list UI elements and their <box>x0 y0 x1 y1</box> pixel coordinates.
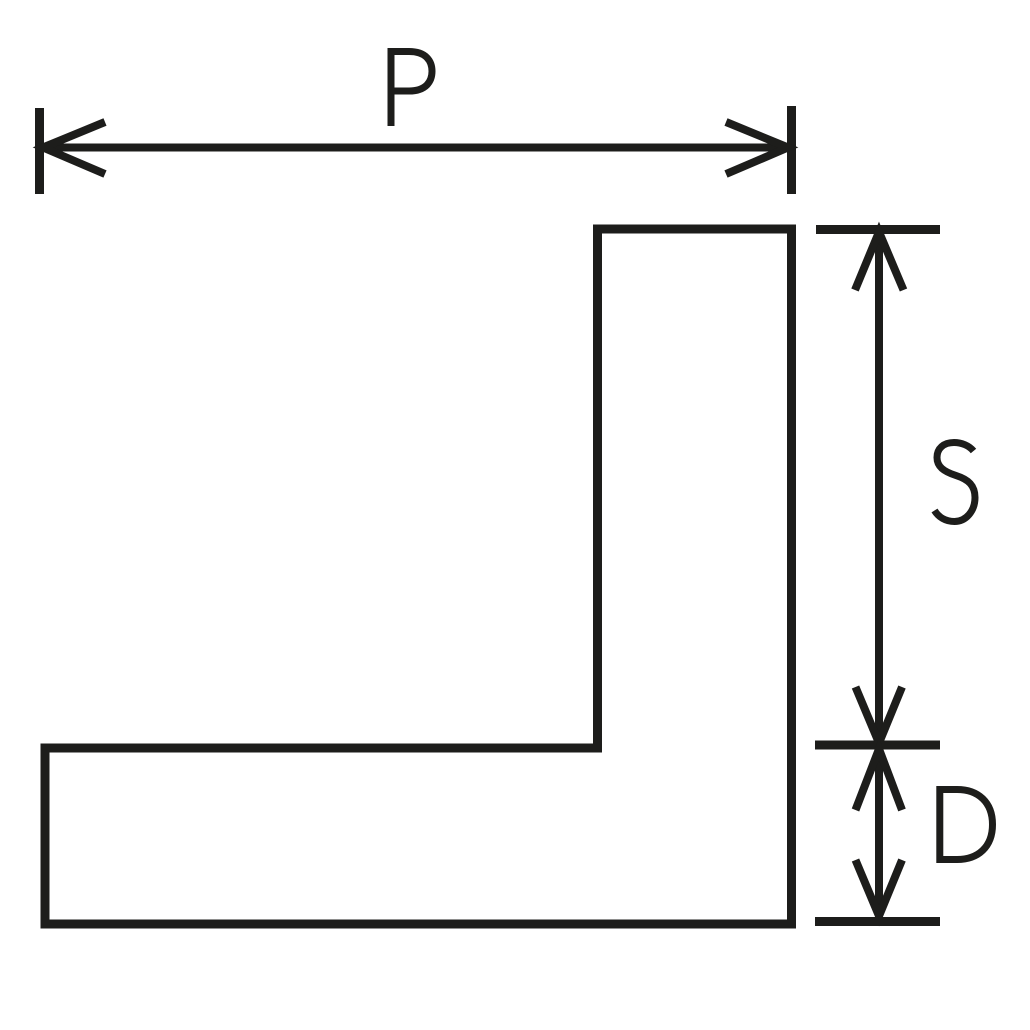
dimension P: left arrowhead <box>43 122 105 174</box>
L-profile outline <box>45 229 792 924</box>
dimension P: right extension tick <box>787 106 796 194</box>
dimension D: bottom extension tick <box>815 917 940 926</box>
dimension S: top arrowhead <box>855 232 904 290</box>
dimension S: top extension tick <box>816 225 940 234</box>
dimension D: middle extension tick <box>815 741 940 750</box>
dimension S: dimension line <box>875 231 883 920</box>
dimension D: bottom arrowhead <box>856 860 903 916</box>
dimension P: dimension line <box>41 144 790 152</box>
dimension P: right arrowhead <box>726 122 788 174</box>
label D <box>937 786 993 863</box>
dimension S: bottom arrowhead <box>856 687 903 743</box>
dimension P: left extension tick <box>35 108 44 194</box>
label S <box>935 443 976 522</box>
dimension D: top arrowhead <box>856 749 903 810</box>
label P <box>389 48 432 126</box>
